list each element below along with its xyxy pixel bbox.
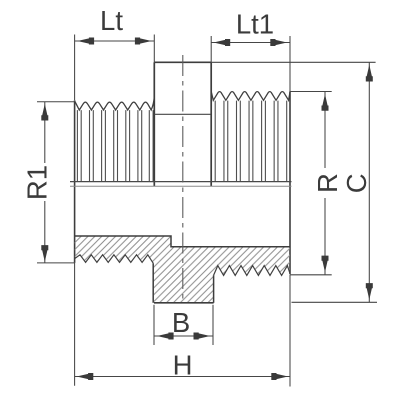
dim B extension lines <box>154 305 213 345</box>
left thread top silhouette <box>75 97 155 110</box>
dim R arrows <box>322 94 329 111</box>
dim B line <box>154 335 213 337</box>
svg-text:H: H <box>173 350 193 381</box>
collar top half outline <box>154 62 211 186</box>
dim H line <box>75 376 290 378</box>
dim Lt1 arrows <box>214 39 231 46</box>
left end face edge <box>74 100 76 263</box>
dim H extension lines <box>75 263 290 387</box>
left thread root lines <box>77 110 153 182</box>
svg-text:B: B <box>172 307 190 338</box>
svg-text:R: R <box>312 173 343 193</box>
dim R1 extension lines <box>37 102 75 263</box>
dim Lt line <box>75 40 155 42</box>
vertical centerline <box>182 55 184 303</box>
dim B arrows <box>157 333 174 340</box>
thread root cylinder line <box>70 181 292 183</box>
dim R extension lines <box>290 92 332 275</box>
section hatch fill <box>75 236 290 303</box>
right thread root lines <box>215 101 287 182</box>
dim C bottom extension <box>292 301 378 303</box>
right end face edge <box>289 92 291 275</box>
svg-text:R1: R1 <box>22 165 53 200</box>
axis line <box>70 185 292 187</box>
collar right step edge <box>213 275 215 303</box>
collar hex face line <box>154 113 211 115</box>
dim C arrows <box>366 65 373 82</box>
dim H arrows <box>77 373 94 380</box>
dim Lt arrows <box>77 38 94 45</box>
dim R line (broken for text) <box>324 92 326 275</box>
dim R1 arrows <box>41 104 48 121</box>
dim Lt extension lines <box>75 35 155 101</box>
inner bore wall (left) <box>75 236 290 247</box>
dim R1 line (broken for text) <box>44 102 46 263</box>
collar bottom <box>154 302 214 304</box>
dim C top extension <box>211 61 375 63</box>
dim Lt1 extension lines <box>211 36 290 92</box>
svg-text:C: C <box>341 173 372 193</box>
right outer thread zigzag (section) <box>214 266 290 276</box>
collar left step edge <box>152 263 154 303</box>
right thread top silhouette <box>211 92 290 101</box>
dim Lt1 line <box>211 42 290 44</box>
dim C line <box>368 62 370 302</box>
left outer thread zigzag (section) <box>75 255 153 263</box>
svg-text:Lt1: Lt1 <box>236 9 274 40</box>
svg-text:Lt: Lt <box>100 5 123 36</box>
